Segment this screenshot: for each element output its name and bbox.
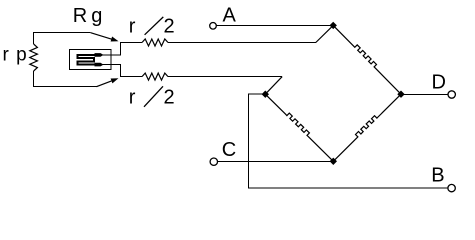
wire rp bottom diagonal to arrow — [96, 81, 111, 87]
node top — [330, 22, 337, 29]
svg-text:D: D — [432, 72, 446, 94]
terminal C circle — [210, 158, 217, 165]
gauge bottom lead stub — [100, 65, 121, 78]
resistor r/2 top zigzag — [142, 39, 168, 46]
wire rp left vertical top stub — [33, 32, 35, 44]
wire bottom lead diagonal to left node — [265, 77, 282, 95]
terminal D circle — [448, 91, 455, 98]
terminal A circle — [210, 23, 217, 30]
gauge top lead stub — [100, 42, 121, 55]
resistor r/2 bottom zigzag — [142, 73, 168, 80]
wire top lead right segment — [168, 42, 316, 44]
wire rp top horizontal — [33, 32, 91, 34]
gauge tab top — [95, 53, 104, 57]
bridge resistor left node to bottom node — [265, 94, 333, 161]
wire rp left vertical bottom stub — [33, 71, 35, 87]
node right — [397, 91, 404, 98]
svg-text:Rg: Rg — [73, 5, 107, 27]
wire terminal A to top node — [217, 25, 332, 27]
wire rp top diagonal to arrow — [91, 33, 113, 40]
svg-text:r: r — [129, 16, 136, 38]
svg-text:C: C — [222, 139, 236, 161]
node bottom — [330, 158, 337, 165]
axis-aligned wires: crisp 1px — [33, 26, 448, 189]
svg-text:2: 2 — [164, 87, 175, 109]
label r/2 bottom: slash — [144, 86, 163, 107]
node left — [262, 91, 269, 98]
svg-text:r: r — [129, 87, 136, 109]
wire right node to terminal D — [401, 93, 448, 95]
wire rp bottom horizontal — [33, 86, 96, 88]
svg-text:2: 2 — [164, 16, 175, 38]
strain gauge Rg body — [70, 50, 112, 70]
svg-text:A: A — [223, 5, 237, 27]
bridge resistor top node to right node — [333, 25, 401, 94]
label r/2 top: slash — [145, 17, 164, 35]
wire terminal C to bottom node — [218, 161, 333, 163]
wire left node to terminal B — [248, 94, 447, 188]
terminal B circle — [448, 184, 455, 191]
wire top lead diagonal to top node — [316, 25, 333, 42]
svg-text:B: B — [431, 165, 444, 187]
diagonal wires and zigzags: antialiased — [30, 25, 401, 161]
gauge tab bottom — [95, 63, 104, 67]
bridge resistor bottom node to right node — [333, 94, 401, 161]
wire bottom lead right segment — [168, 76, 282, 78]
strain gauge Rg grid — [77, 55, 96, 65]
arrow to gauge bottom lead — [111, 78, 119, 83]
resistor rp zigzag — [30, 44, 38, 71]
arrow to gauge top lead — [111, 37, 119, 42]
wire top lead left segment — [120, 42, 142, 44]
svg-text:r p: r p — [3, 45, 28, 66]
wire bottom lead left segment — [120, 76, 142, 78]
